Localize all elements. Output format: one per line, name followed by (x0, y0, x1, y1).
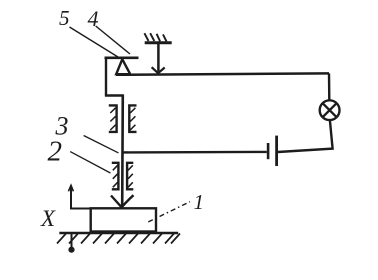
pivot triangle (116, 59, 130, 74)
leader line for label 2 (70, 152, 110, 173)
lower pointer dot (68, 247, 74, 253)
lever (contact arm) (116, 73, 329, 74)
workpiece base block 1 (91, 208, 156, 231)
wire from rod to battery (123, 151, 267, 154)
contact blade (short top bar) (105, 56, 139, 59)
lower pointer line (71, 234, 73, 248)
upper guide left hatching (110, 108, 115, 130)
upper guide right hatching (130, 108, 135, 130)
lower guide, left bracket (112, 163, 119, 190)
spring force arrowhead (152, 67, 165, 73)
upper guide, right bracket (129, 105, 136, 131)
step link (105, 94, 123, 96)
dash-dot leader line for label 1 (148, 202, 190, 222)
displacement arrowhead (68, 185, 73, 191)
spring force arrow stem (157, 44, 160, 72)
leader line for label 3 (84, 136, 119, 153)
left vertical link (105, 57, 107, 96)
link from arrow to block (70, 208, 91, 210)
upper guide, left bracket (109, 105, 117, 131)
wire from lever to lamp (328, 73, 331, 100)
fixed support hatching (144, 33, 166, 41)
lower guide left hatching (113, 165, 118, 187)
svg-text:5: 5 (59, 6, 70, 30)
leader line for label 5 (70, 27, 119, 57)
lamp circle (320, 100, 340, 120)
svg-text:2: 2 (48, 136, 63, 168)
ground hatching (57, 234, 180, 244)
leader line for label 4 (96, 26, 130, 54)
displacement arrow up (70, 188, 72, 209)
wire from battery to lamp (278, 120, 333, 152)
lower guide right hatching (128, 165, 133, 187)
battery short plate (267, 143, 270, 159)
svg-text:1: 1 (194, 190, 205, 214)
lamp cross (323, 103, 337, 117)
rod arrowhead (111, 195, 134, 207)
svg-text:X: X (40, 206, 56, 231)
fixed support bar (top) (145, 41, 172, 44)
battery long plate (275, 136, 278, 166)
lower guide, right bracket (127, 163, 133, 190)
ground line (59, 232, 178, 235)
measuring rod (121, 94, 124, 206)
